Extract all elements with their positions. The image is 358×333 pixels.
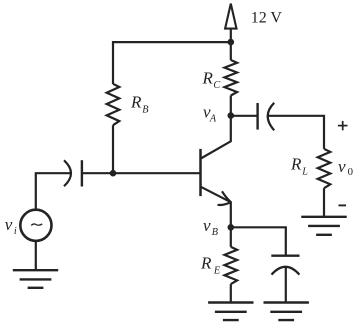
svg-text:v: v [203,216,211,235]
svg-text:v: v [338,157,346,176]
svg-text:B: B [212,227,218,238]
svg-text:L: L [301,166,308,177]
svg-text:R: R [202,68,214,87]
svg-text:R: R [290,155,302,174]
svg-text:E: E [213,265,221,276]
svg-text:A: A [209,114,217,125]
svg-text:i: i [14,226,17,237]
svg-text:R: R [200,254,212,273]
svg-text:B: B [142,104,148,115]
svg-text:12 V: 12 V [251,10,283,27]
svg-text:v: v [5,215,13,234]
svg-text:C: C [213,80,220,91]
svg-text:0: 0 [348,166,353,178]
svg-text:R: R [130,93,142,112]
